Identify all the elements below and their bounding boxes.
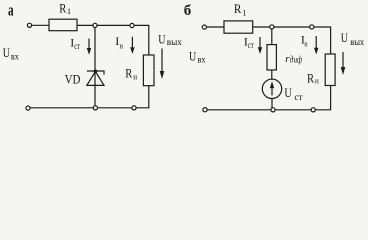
svg-text:1: 1 — [242, 7, 246, 17]
label Rn (a) — [125, 67, 137, 82]
svg-text:вых: вых — [350, 37, 364, 47]
wire input to R1 (b) — [207, 26, 224, 28]
svg-text:н: н — [120, 40, 124, 50]
label rdif — [285, 53, 302, 65]
node bottom output junction (b) — [311, 108, 315, 112]
current arrow Ist (b) — [258, 37, 262, 54]
node top output junction (b) — [310, 25, 314, 29]
voltage source Ust circle (b) — [262, 79, 281, 98]
svg-text:н: н — [133, 71, 137, 81]
current arrow In (b) — [314, 36, 318, 55]
node bottom source junction (b) — [271, 108, 275, 112]
wire right branch down to bottom (a) — [30, 86, 149, 108]
current arrow Ist (a) — [87, 39, 91, 55]
label Ust (b) — [284, 85, 302, 102]
svg-text:U: U — [341, 30, 349, 45]
svg-text:R: R — [125, 67, 133, 81]
svg-text:U: U — [158, 31, 166, 46]
svg-text:а: а — [8, 0, 14, 19]
svg-text:н: н — [315, 75, 319, 85]
label Uvyx (b) — [341, 30, 365, 47]
node top VD junction (a) — [93, 23, 97, 27]
wire rdif branch top (b) — [271, 29, 273, 45]
label R1 (a) — [59, 1, 71, 16]
label In (b) — [301, 32, 308, 48]
resistor Rn (a) — [143, 55, 154, 86]
svg-text:ст: ст — [248, 40, 254, 50]
svg-text:R: R — [307, 72, 315, 86]
svg-text:вх: вх — [197, 54, 206, 64]
wire top (a) — [77, 25, 149, 55]
label Uvx (a) — [3, 45, 20, 62]
voltage arrow Uvyx (b) — [341, 52, 346, 75]
terminal bottom-left (b) — [203, 108, 207, 112]
svg-text:VD: VD — [65, 73, 81, 87]
input terminal top-left (circuit a) — [27, 23, 31, 27]
wire top (b) — [253, 27, 331, 54]
svg-text:R: R — [234, 2, 242, 16]
zener diode VD (a) — [87, 69, 104, 85]
zener diode VD wire (a) — [94, 28, 96, 106]
svg-text:R: R — [59, 1, 67, 15]
svg-text:U: U — [3, 45, 11, 60]
svg-text:вх: вх — [11, 52, 19, 62]
svg-text:U: U — [189, 49, 197, 64]
label In (a) — [115, 34, 123, 50]
voltage arrow Uvyx (a) — [160, 49, 165, 80]
wire rdif to source (b) — [271, 70, 273, 79]
label Ist (a) — [70, 35, 80, 51]
svg-text:б: б — [184, 3, 192, 19]
terminal bottom-left (a) — [26, 106, 30, 110]
wire input to R1 (a) — [32, 24, 49, 26]
label Uvyx (a) — [158, 31, 182, 47]
label Ist (b) — [244, 34, 254, 50]
wire source to bottom (b) — [271, 99, 273, 108]
wire bottom (b) — [207, 86, 330, 110]
input terminal top-left (circuit b) — [202, 25, 206, 29]
svg-text:1: 1 — [67, 6, 71, 16]
svg-text:U: U — [284, 85, 292, 100]
svg-text:н: н — [304, 38, 308, 48]
label R1 (b) — [234, 2, 247, 17]
node top rdif junction (b) — [270, 25, 274, 29]
svg-text:диф: диф — [290, 54, 303, 64]
svg-text:ст: ст — [74, 41, 80, 51]
source internal arrow (b) — [270, 81, 274, 95]
svg-text:вых: вых — [167, 37, 183, 47]
svg-text:ст: ст — [294, 92, 302, 102]
resistor Rn (b) — [325, 54, 335, 86]
current arrow In (a) — [130, 37, 134, 54]
label Rn (b) — [307, 72, 319, 86]
node bottom VD junction (a) — [93, 106, 97, 110]
resistor R1 (b) — [224, 21, 253, 33]
resistor rdif (b) — [267, 45, 276, 70]
node bottom output junction (a) — [132, 106, 136, 110]
label Uvx (b) — [189, 49, 206, 65]
node top output junction (a) — [130, 23, 134, 27]
resistor R1 (a) — [49, 19, 77, 31]
